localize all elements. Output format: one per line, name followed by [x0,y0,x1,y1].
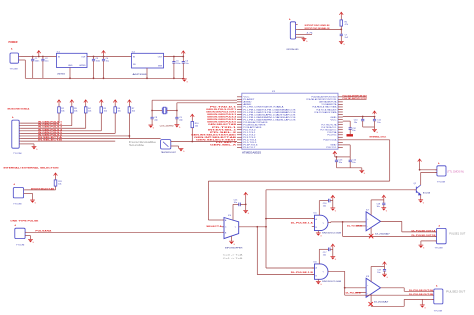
pin 8 IC3 left [237,114,242,116]
pin 1 IC3 left [237,96,242,98]
pin 5 X3 [19,132,20,134]
capacitor C5 [173,57,175,62]
svg-text:PULSANA: PULSANA [35,230,52,233]
junction [42,56,44,58]
wire [171,145,179,147]
resistor R5 [100,107,103,113]
pin 27 IC3 right [338,108,343,110]
junction [344,287,346,289]
wire [330,248,333,250]
svg-text:DL.PULSE.OUT.1A: DL.PULSE.OUT.1A [412,229,437,232]
pin stub IC7 vminus [370,228,372,237]
svg-text:10k: 10k [118,111,121,113]
wire [24,60,26,78]
pin 42 IC3 right [338,146,343,148]
wire [146,68,148,78]
wire [420,169,437,171]
svg-text:10n: 10n [323,254,326,256]
pin 4 X3 [19,130,20,132]
wire [21,127,86,129]
pin 34 IC3 right [338,126,343,128]
svg-text:IN.SELECT.B: IN.SELECT.B [38,140,63,142]
wire [233,203,239,205]
resistor R10 [191,122,194,128]
wire [239,226,266,228]
supply +3V [182,54,184,56]
wire [69,68,71,79]
ground [359,170,365,175]
erc marker X [369,302,373,306]
wire [298,36,304,38]
gnd pin wire IC5 [317,231,319,233]
capacitor C15 [239,203,241,207]
wire [343,120,350,122]
wire [343,139,390,141]
svg-text:10u: 10u [45,61,48,63]
wire [403,288,405,292]
svg-text:TYCOM: TYCOM [16,244,24,246]
svg-text:PC4.TSC: PC4.TSC [327,135,337,137]
wire [208,219,221,221]
wire [58,103,60,107]
wire [421,240,437,242]
wire [55,186,57,190]
svg-text:DL2506A7: DL2506A7 [374,301,390,304]
svg-text:TYCOM: TYCOM [10,68,18,70]
wire [27,231,222,233]
wire [21,135,130,137]
ground [330,257,336,262]
supply +5V [103,54,105,57]
wire [58,113,60,123]
junction [374,116,376,118]
wire [298,28,342,30]
svg-text:INT.EXT.SELECT.AB: INT.EXT.SELECT.AB [31,187,55,190]
svg-text:100n: 100n [176,63,180,65]
resistor R7 [128,107,131,113]
wire [100,103,102,107]
wire [21,143,34,145]
wire [420,172,422,185]
wire [25,192,33,194]
wire [257,274,314,276]
ground [316,282,322,287]
wire [21,122,59,124]
wire [114,113,116,133]
ground bar [347,134,354,136]
pin 37 IC3 right [338,134,343,136]
svg-text:BC547A: BC547A [423,192,431,195]
ground [420,305,426,310]
resistor R2 [58,107,61,113]
capacitor C6 [182,57,184,62]
svg-text:PL6.TO.7: PL6.TO.7 [243,147,256,149]
ground [243,211,249,216]
pin 19 IC3 left [237,141,242,143]
junction [265,218,267,220]
pin 35 IC3 right [338,129,343,131]
pin 40 IC3 right [338,141,343,143]
junction [340,29,342,31]
svg-text:TYCOM: TYCOM [435,247,443,249]
supply pin wire IC6 [318,249,320,264]
junction [93,56,95,58]
gnd pin wire IC4 [231,236,233,241]
svg-text:10n: 10n [323,206,326,208]
wire [303,37,305,38]
capacitor C2 [42,57,44,60]
supply +5V [128,100,132,103]
junction [173,77,175,79]
pin 8 X3 [19,140,20,142]
wire [345,287,366,289]
ground [419,245,425,250]
supply +5V [418,159,422,162]
crystal Q1 [162,107,167,114]
svg-text:POWER: POWER [9,40,18,44]
junction [245,204,247,206]
resistor R1 [340,20,343,26]
pin 1 X3 [19,122,20,124]
supply +5V [331,244,335,247]
junction [191,141,193,143]
pin 14 IC3 left [237,129,242,131]
and gate IC5 [315,215,329,230]
ground [339,42,345,47]
pin 20 IC3 left [237,144,242,146]
svg-text:100n: 100n [35,61,39,63]
connector X8 [437,166,446,176]
junction [265,226,267,228]
wire [55,176,57,180]
capacitor C7 [340,34,343,36]
pin 7 IC3 left [237,111,242,113]
pin 12 IC3 left [237,124,242,126]
pin 6 X3 [19,135,20,137]
svg-text:PCA.TA1.ANTSPC.PCNT: PCA.TA1.ANTSPC.PCNT [343,97,368,100]
erc marker X [369,234,373,238]
wire [331,221,366,223]
resistor R11 [54,180,57,186]
wire [330,221,332,224]
pin 16 IC3 left [237,134,242,136]
wire [128,113,130,136]
wire [343,116,375,118]
svg-text:GND: GND [68,65,73,67]
wire [85,113,87,128]
svg-text:PC6.TO.1: PC6.TO.1 [326,147,337,149]
capacitor C3 [93,57,95,60]
wire [330,200,333,202]
pin 17 IC3 left [237,136,242,138]
wire [176,103,178,118]
ground [302,39,308,44]
svg-text:10k: 10k [132,111,135,113]
pin 2 X1 [19,59,21,61]
wire [87,56,132,58]
wire [85,103,87,107]
wire [191,118,193,122]
svg-text:47k: 47k [345,24,348,26]
wire [245,196,247,210]
svg-text:LM7805: LM7805 [79,65,86,67]
junction [151,110,153,112]
wire [319,200,328,202]
capacitor C14 [349,157,351,160]
junction [256,226,258,228]
svg-text:10u: 10u [377,122,380,124]
svg-text:KRYSTALGND: KRYSTALGND [287,48,299,51]
pin 23 IC3 right [338,98,343,100]
wire [176,119,178,125]
svg-text:Q2: Q2 [414,183,417,185]
wire [344,288,346,295]
wire [21,125,72,127]
wire [152,110,162,112]
pin 2 X4 [24,192,25,194]
wire [256,227,258,275]
capacitor C4 [103,57,105,60]
wire [167,110,177,112]
wire [21,130,102,132]
svg-text:10n: 10n [234,202,237,204]
ground [330,208,336,213]
resistor R4 [84,107,87,113]
wire [25,77,184,79]
wire [298,34,312,36]
pin 2 X2 [296,28,298,30]
capacitor C19 [383,270,386,272]
svg-text:TYCOM: TYCOM [13,204,21,206]
output wire IC4 [238,226,241,228]
pin 15 IC3 left [237,131,242,133]
wire [343,144,350,146]
wire [349,129,351,134]
wire [361,168,363,170]
wire [381,220,402,222]
pin 2 IC3 left [237,98,242,100]
wire [383,199,385,204]
pin 10 IC3 left [237,119,242,121]
wire [340,36,342,42]
pin 32 IC3 right [338,121,343,123]
capacitor C10 [362,117,364,120]
wire [389,140,391,181]
pin 18 IC3 left [237,139,242,141]
connector X5 [15,228,25,238]
connector X4 [13,188,23,198]
wire [21,138,130,140]
svg-text:10n: 10n [352,130,355,132]
svg-text:4.7k: 4.7k [307,33,313,35]
supply +5V [38,54,40,57]
wire [152,99,237,101]
capacitor C12 [349,128,352,130]
pin 21 IC3 left [237,146,242,148]
svg-text:Functionalite: Functionalite [129,141,157,144]
wire [343,235,437,237]
wire [71,113,73,126]
wire [33,144,35,146]
pin 6 IC3 left [237,108,242,110]
supply +5V [382,195,386,198]
capacitor C16 [329,199,331,203]
pin 13 IC3 left [237,126,242,128]
svg-text:LM7805: LM7805 [57,74,66,76]
wire [207,181,209,220]
pin 9 IC3 left [237,116,242,118]
svg-text:INTERNAL.OSC1: INTERNAL.OSC1 [369,136,387,139]
wire [421,171,437,173]
supply +5V [373,111,377,114]
pin marks IC8 [367,285,369,295]
wire [25,189,56,191]
connector X3 [12,120,19,148]
wire [328,222,331,224]
wire [343,98,367,100]
resistor R6 [114,107,117,113]
supply pin wire IC5 [318,201,320,216]
svg-text:ONE TYPE PULSE: ONE TYPE PULSE [10,221,39,223]
junction [342,221,344,223]
supply +5V [339,12,343,15]
connector X6 [437,228,447,243]
pin 36 IC3 right [338,131,343,133]
supply +5V [244,193,248,196]
svg-text:PCA.TOCSLASOS.TOATA: PCA.TOCSLASOS.TOATA [314,111,337,114]
wire [32,193,34,199]
pin 2 IC4 [222,226,224,228]
pin 1 X1 [19,56,21,58]
wire [319,248,328,250]
wire [192,141,237,143]
wire [164,56,184,58]
wire [266,267,315,269]
wire [27,235,31,237]
pin 22 IC3 right [338,96,343,98]
wire [404,298,434,300]
capacitor C17 [329,248,331,252]
pin stub IC8 vminus [370,294,372,306]
pin 1 X4 [24,189,25,191]
svg-text:10u: 10u [106,61,109,63]
op-amp IC7 [366,212,380,231]
switch S1 [161,140,171,149]
ground [179,149,185,154]
wire [128,103,130,107]
svg-text:C=0 -> T=A: C=0 -> T=A [223,254,244,257]
pin 4 X2 [296,36,298,38]
pin 3 IC4 [222,231,224,233]
svg-text:10k: 10k [74,111,77,113]
microcontroller IC3 ATMEGA8535 box [242,93,338,149]
junction [173,56,175,58]
wire [371,199,384,201]
wire [240,203,245,205]
junction [146,77,148,79]
wire [404,290,434,292]
wire [100,113,102,131]
pin 1 IC5 [312,218,315,220]
wire [21,140,116,142]
wire [266,218,315,220]
wire [265,190,267,268]
capacitor C8 [151,117,154,119]
wire [371,266,384,268]
wire [420,195,422,200]
svg-text:100n: 100n [96,61,100,63]
pin 3 IC3 left [237,101,242,103]
wire [21,132,116,134]
pin 1 IC4 [222,219,224,221]
wire [21,56,57,58]
ground [229,241,235,246]
svg-text:PCA.TOC6LA: PCA.TOC6LA [323,139,337,142]
pin stub IC8 minus [356,291,366,293]
ground [32,147,38,152]
multiplexer IC4 input buffer [224,218,239,239]
svg-text:DL.PULSE.OUT.2B: DL.PULSE.OUT.2B [409,294,434,296]
junction [93,77,95,79]
wire [342,222,344,237]
wire [383,205,385,208]
pin 1 IC6 [312,267,315,269]
ground [316,233,322,238]
svg-text:10u: 10u [185,63,188,65]
pin 24 IC3 right [338,101,343,103]
wire [421,299,423,304]
wire [337,167,362,169]
svg-text:Scumble: Scumble [129,145,145,147]
svg-text:10u: 10u [352,162,355,164]
wire [208,180,389,182]
connector X2 [290,22,295,39]
wire [328,270,345,272]
svg-text:QG=4MHZ: QG=4MHZ [160,125,175,127]
wire [345,294,434,296]
svg-text:10k: 10k [195,125,198,127]
svg-text:10k: 10k [104,111,107,113]
svg-text:IN.SELECT.A: IN.SELECT.A [38,136,63,139]
svg-text:10n: 10n [339,162,342,164]
capacitor C18 [382,203,385,205]
pin 28 IC3 right [338,111,343,113]
and gate IC6 [315,264,328,279]
svg-text:DL.PULSE.1.A: DL.PULSE.1.A [291,221,314,224]
junction [103,56,105,58]
wire [403,299,405,306]
svg-text:TYCOM: TYCOM [437,182,445,184]
ground [382,274,388,279]
op-amp IC8 [366,278,380,297]
supply +5V [331,195,335,198]
svg-text:PULSE2 OUT: PULSE2 OUT [446,291,466,294]
junction [182,56,184,58]
pin stubs X7 [432,291,433,299]
wire [334,155,336,157]
ground [381,208,387,213]
wire [128,136,130,139]
wire [21,59,26,61]
junction [176,110,178,112]
svg-text:DL.PULSE.1.B: DL.PULSE.1.B [291,272,314,274]
pin stub IC7 minus [356,225,366,227]
pin 3 X2 [296,34,298,36]
svg-text:VCC: VCC [330,119,337,121]
regulator IC2 ADP3303 [132,53,164,68]
pin 2 X5 [25,235,26,237]
svg-text:SN74LVC1G08: SN74LVC1G08 [322,281,342,283]
